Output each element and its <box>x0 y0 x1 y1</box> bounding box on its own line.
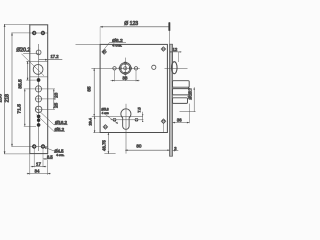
leader D4.5 <box>44 147 54 151</box>
dimension 46.75 <box>107 133 109 154</box>
dimension 3 <box>173 150 179 152</box>
follower horizontal centerline <box>91 67 139 69</box>
svg-text:218: 218 <box>4 94 10 103</box>
dimension 250 <box>4 24 6 154</box>
side faceplate strip <box>170 44 173 156</box>
handle hole D20.2 <box>33 65 43 75</box>
dimension 38 <box>114 70 116 81</box>
bottom screw hole right <box>41 144 45 148</box>
svg-text:29.4: 29.4 <box>89 118 93 125</box>
leader D20.2 <box>23 52 39 54</box>
cylinder side hole left <box>113 118 117 122</box>
plate recess lower edge <box>30 76 48 78</box>
filled hole D5.2 <box>37 115 41 119</box>
lower filled hole <box>37 123 41 127</box>
dimension 85 <box>93 68 95 116</box>
dimension D123 <box>100 26 169 28</box>
dimension 12 (latch protrusion) <box>170 51 182 53</box>
svg-text:Ø16.2: Ø16.2 <box>55 120 68 125</box>
dimension 35.5 <box>27 61 29 80</box>
svg-text:Ø20.2: Ø20.2 <box>16 48 30 54</box>
dimension 7.5 <box>142 112 144 120</box>
small filled hole below handle <box>37 78 41 82</box>
svg-text:23: 23 <box>54 92 59 98</box>
dimension 17.2 <box>39 59 63 61</box>
leader D16.2 <box>35 107 54 124</box>
corner hole top-right <box>161 47 166 52</box>
bottom screw centerline <box>30 146 48 148</box>
svg-text:7.5: 7.5 <box>137 107 141 112</box>
crosshair hole 1 <box>35 85 42 92</box>
svg-text:Ø5.2: Ø5.2 <box>55 127 65 132</box>
svg-text:85: 85 <box>86 86 91 92</box>
faceplate vertical centerline <box>38 44 40 151</box>
top screw hole left <box>32 31 36 35</box>
svg-text:38: 38 <box>122 75 128 80</box>
svg-text:71.5: 71.5 <box>16 104 22 114</box>
svg-text:8.5: 8.5 <box>47 155 53 160</box>
cylinder side hole right <box>135 118 139 122</box>
follower side hole right <box>134 67 137 70</box>
deadbolt pin 3 <box>173 98 188 104</box>
lock body outline <box>100 44 167 132</box>
cylinder vertical centerline <box>125 104 127 154</box>
top screw centerline <box>30 32 48 34</box>
upper small hole <box>36 50 41 55</box>
follower vertical centerline <box>124 58 126 81</box>
cylinder horizontal line <box>92 115 143 117</box>
svg-text:250: 250 <box>0 94 4 103</box>
projection line from body top-left corner <box>76 44 101 46</box>
dimension D15.7 <box>193 87 195 111</box>
follower side hole left <box>113 67 116 70</box>
leader D5.2 <box>36 115 54 132</box>
corner hole bottom-right <box>161 119 166 124</box>
svg-text:35.5: 35.5 <box>18 79 24 89</box>
svg-text:17.2: 17.2 <box>51 54 60 59</box>
latch bolt (side view ellipse) <box>172 62 178 74</box>
svg-text:4 отв: 4 отв <box>102 111 109 115</box>
dimension 80 <box>125 149 170 151</box>
leader D5.8 <box>105 114 118 123</box>
dimension 17 <box>33 148 35 167</box>
dimension 29.4 <box>94 116 96 132</box>
plain hole right of follower <box>152 65 156 69</box>
extension from bottom-right hole <box>163 124 165 133</box>
svg-text:4 отв.: 4 отв. <box>56 153 64 157</box>
dimension 218 <box>11 33 13 147</box>
svg-text:36: 36 <box>177 118 182 123</box>
latch bolt centerline <box>165 68 188 70</box>
svg-text:46.75: 46.75 <box>102 140 107 151</box>
svg-text:80: 80 <box>136 143 142 148</box>
dimension 36 <box>188 104 190 124</box>
dimension 34 <box>29 154 31 175</box>
svg-text:12: 12 <box>173 47 178 52</box>
plate recess upper edge <box>30 60 48 62</box>
faceplate outline (front view) <box>30 25 48 154</box>
svg-text:Ø15.7: Ø15.7 <box>188 87 193 99</box>
top screw hole right <box>41 31 45 35</box>
svg-text:25: 25 <box>54 102 59 108</box>
svg-text:Ø 123: Ø 123 <box>124 21 138 27</box>
dimension 71.5 <box>24 89 26 126</box>
corner hole bottom-left <box>103 125 108 130</box>
crosshair hole 2 <box>35 95 42 102</box>
follower hub <box>119 62 132 75</box>
cylinder hole D16.2 <box>35 106 42 113</box>
svg-text:34: 34 <box>35 168 40 173</box>
svg-text:4 отв.: 4 отв. <box>112 44 122 48</box>
bottom screw hole left <box>32 144 36 148</box>
dimension 8.5 <box>43 158 53 160</box>
deadbolt pin 1 <box>173 81 190 88</box>
deadbolt pin 2 <box>173 89 190 95</box>
svg-text:17: 17 <box>36 162 41 167</box>
euro cylinder hole <box>121 109 131 129</box>
corner hole top-left <box>102 50 107 55</box>
dimension 23 / 25 lines <box>53 89 55 110</box>
